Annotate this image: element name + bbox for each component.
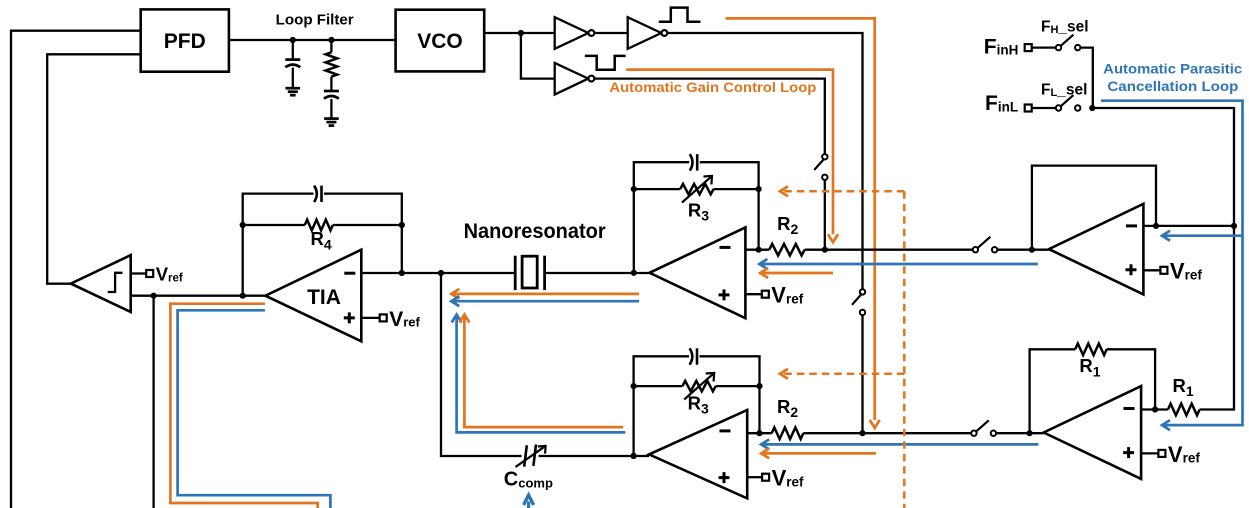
node U5 input (631, 453, 637, 459)
wire TIA minus to resonator (361, 272, 515, 274)
wire R4 mid rail (243, 224, 402, 226)
label R2 upper (777, 213, 798, 237)
wire blue under TIA (178, 310, 331, 508)
node U5 tip input (631, 453, 637, 459)
inverter U3 (555, 63, 595, 95)
label Automatic Gain Control Loop (609, 80, 816, 95)
node R4 left (240, 222, 246, 228)
resistor R4 (305, 220, 333, 231)
ground loop-filter C2 (324, 119, 339, 126)
arrow R3 upper variable (682, 176, 712, 203)
label Nanoresonator (464, 220, 606, 243)
wire U5 R3 top rail (634, 356, 760, 456)
node U4 R3 right (756, 186, 762, 192)
wire APC blue branch upper (1164, 234, 1243, 237)
crystal nanoresonator (515, 256, 544, 290)
switch FH_sel (1056, 35, 1081, 51)
label R2 lower (777, 396, 798, 420)
wire PFD to VCO (229, 39, 396, 41)
arrow APC blue lower (1162, 420, 1170, 430)
arrow APC blue upper (1162, 231, 1170, 241)
svg-text:FH_sel: FH_sel (1041, 18, 1089, 36)
node U4 input (631, 270, 637, 276)
terminal FinH (1025, 44, 1032, 51)
op-amp TIA (265, 250, 361, 342)
arrow Ccomp variable (516, 446, 546, 467)
wire FinH to switch (1032, 46, 1056, 48)
node TIA minus R4 (399, 270, 405, 276)
node opamp D minus junction (1152, 406, 1158, 412)
switch FL_sel (1056, 95, 1081, 111)
node loop-filter C1 (290, 37, 296, 43)
node U7 input (1027, 430, 1033, 436)
wire U4 R3 mid rail (634, 189, 759, 250)
switch S5 lower path (971, 420, 996, 436)
node U4 R3 left (631, 186, 637, 192)
node U5 R3 right (756, 383, 762, 389)
node R4 right (399, 222, 405, 228)
capacitor C3 in U4 feedback (690, 154, 697, 170)
label FL_sel (1041, 81, 1087, 99)
node U5 minus (756, 430, 762, 436)
node lower drive junction (859, 430, 865, 436)
wire FH switch to junction (1080, 48, 1092, 108)
op-amp U7 (1044, 386, 1141, 479)
wire U6 input (997, 249, 1049, 251)
wire U7 input (996, 432, 1044, 434)
terminal U6 Vref (1143, 259, 1202, 284)
arrow blue under resonator (451, 296, 639, 306)
wire PFD input top (11, 31, 141, 508)
svg-text:Automatic Parasitic: Automatic Parasitic (1103, 61, 1242, 77)
wire upper drive to lower R2 node (861, 315, 863, 433)
wire branch to lower inverter (521, 33, 555, 79)
wire APC blue top and right (1101, 101, 1243, 425)
arrow blue into U5 minus (761, 439, 1038, 449)
wire U5 minus to R2 (747, 432, 772, 434)
node TIA output R4 (240, 293, 246, 299)
resistor R1 series (1168, 404, 1200, 416)
arrow orange under resonator (451, 289, 639, 299)
resistor R2 lower (772, 427, 804, 439)
node U5 R3 left (631, 383, 637, 389)
arrow orange vertical up (459, 315, 623, 428)
node loop-filter R (328, 37, 334, 43)
op-amp U4 (650, 227, 746, 318)
wire U4 minus to R2 (745, 249, 769, 251)
svg-text:Automatic Gain Control Loop: Automatic Gain Control Loop (609, 80, 816, 95)
wire Fin to right and down to R1 (1093, 108, 1234, 410)
wire Ccomp branch (441, 273, 522, 456)
capacitor C2 in R4 feedback (314, 186, 321, 202)
svg-text:TIA: TIA (307, 286, 341, 309)
capacitor Ccomp (524, 445, 536, 467)
wire U1 to U2 (594, 32, 627, 34)
wire lower drive to upper R2 node (824, 180, 826, 250)
wire resonator to U4 (545, 272, 650, 274)
label FinH (984, 35, 1019, 58)
svg-text:PFD: PFD (164, 30, 206, 53)
label Automatic Parasitic (1103, 61, 1242, 77)
node U6 input (1029, 247, 1035, 253)
wire FinL to switch (1032, 107, 1056, 109)
wire VCO output (484, 32, 555, 34)
arrow blue into U4 minus (759, 259, 1037, 269)
arrow AGC orange second down (828, 234, 838, 242)
node TIA output branch (151, 293, 157, 299)
terminal U7 Vref (1141, 442, 1200, 467)
resistor loop-filter R (326, 40, 338, 91)
symbol step inside comparator (108, 273, 123, 292)
node Fin junction (1089, 105, 1095, 111)
arrow AGC orange top down (870, 420, 880, 428)
wire R4 top rail (243, 194, 402, 296)
symbol negative pulse (585, 56, 626, 70)
wire U4 R3 top rail (634, 162, 759, 273)
wire dashed orange lower (780, 369, 904, 379)
wire dashed orange upper (780, 186, 904, 196)
arrow blue up at Ccomp (524, 495, 534, 508)
label FinL (985, 92, 1018, 115)
wire U2 output to upper drive (667, 33, 862, 289)
wire orange under TIA (170, 304, 317, 508)
terminal FinL (1025, 105, 1032, 112)
terminal U5 Vref (747, 466, 804, 491)
wire U6 feedback (1032, 166, 1156, 250)
node right vertical upper (1231, 223, 1237, 229)
svg-text:VCO: VCO (417, 30, 463, 53)
node U4 minus (756, 247, 762, 253)
wire U3 output to lower drive (594, 79, 825, 155)
resistor R1 feedback (1075, 344, 1107, 356)
label R1 feedback (1079, 355, 1100, 379)
label R3 lower (688, 393, 709, 417)
wire TIA output (131, 295, 266, 297)
wire U7 feedback left (1030, 349, 1076, 433)
label Ccomp (504, 469, 553, 491)
node U6 feedback minus (1153, 223, 1159, 229)
arrow blue vertical up (452, 315, 626, 433)
wire PFD input 2 from comparator (47, 54, 141, 283)
svg-text:Loop Filter: Loop Filter (276, 13, 354, 29)
wire U5 R3 mid rail (634, 386, 760, 433)
comparator U8 (71, 255, 131, 312)
capacitor loop-filter C2 (324, 91, 339, 118)
switch S2 on lower drive (814, 154, 827, 180)
node upper drive junction (822, 247, 828, 253)
label Loop Filter (276, 13, 354, 29)
capacitor loop-filter C1 (285, 40, 300, 88)
wire dashed orange vertical (903, 191, 906, 508)
terminal U4 Vref (745, 283, 803, 308)
capacitor C4 in U5 feedback (690, 348, 697, 364)
label R4 (311, 228, 332, 252)
terminal comparator Vref (131, 264, 183, 285)
arrow orange into U5 minus (761, 448, 876, 458)
op-amp U5 (649, 410, 747, 498)
wire lower R2 to S5 (803, 432, 971, 434)
wire comparator branch down (152, 296, 154, 508)
node Ccomp branch (438, 270, 444, 276)
switch S3 on upper drive (852, 289, 865, 315)
switch S4 upper path (973, 237, 998, 253)
wire U7 feedback right (1107, 349, 1155, 409)
node VCO output branch (518, 30, 524, 36)
wire R1 to opamp D minus (1141, 408, 1168, 410)
resistor R3 upper (680, 184, 713, 194)
terminal TIA Vref (361, 308, 420, 331)
block PFD (141, 9, 229, 71)
wire upper R2 to S4 (805, 249, 973, 251)
wire AGC orange second (626, 70, 833, 235)
label R3 upper (688, 200, 709, 224)
symbol positive pulse (659, 8, 701, 22)
wire AGC orange top (726, 18, 875, 420)
label FH_sel (1041, 18, 1089, 36)
svg-text:FL_sel: FL_sel (1041, 81, 1087, 99)
inverter U1 (555, 17, 595, 49)
op-amp U6 (1049, 204, 1144, 295)
resistor R3 lower (682, 381, 715, 391)
wire U6 minus out (1143, 225, 1234, 227)
arrow orange into U4 minus (760, 268, 833, 278)
block VCO (396, 10, 485, 72)
label Cancellation Loop (1107, 78, 1238, 94)
arrow R3 lower variable (684, 373, 714, 400)
wire Ccomp to U5 (539, 455, 650, 457)
svg-text:Nanoresonator: Nanoresonator (464, 220, 606, 243)
inverter U2 (628, 17, 668, 49)
ground loop-filter C1 (286, 88, 301, 95)
resistor R2 upper (769, 244, 804, 256)
label R1 series (1173, 375, 1194, 399)
svg-text:Cancellation Loop: Cancellation Loop (1107, 78, 1238, 94)
